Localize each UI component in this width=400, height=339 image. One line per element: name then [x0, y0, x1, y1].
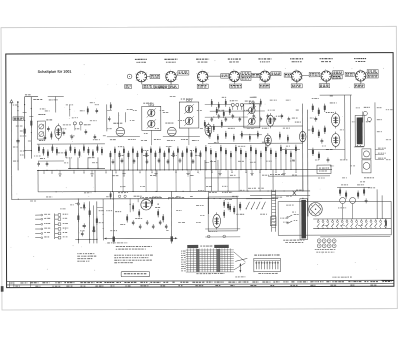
svg-text:Schaltplan für 1001: Schaltplan für 1001: [38, 70, 72, 74]
